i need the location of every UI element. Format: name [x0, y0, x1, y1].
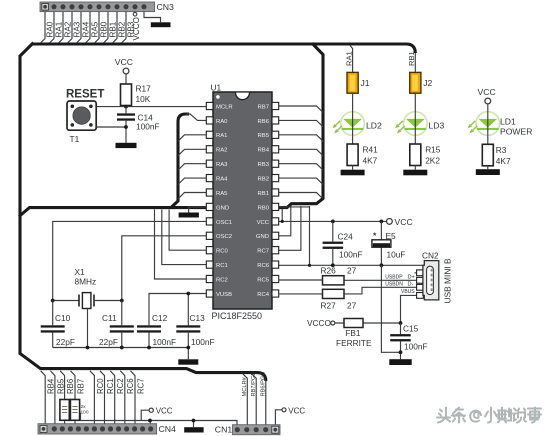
svg-text:C13: C13 [190, 313, 206, 323]
svg-text:R17: R17 [136, 84, 152, 94]
wire R17 bottom to MCLR node [125, 106, 127, 107]
wire VBUS from CN2 down to FB1 node [401, 295, 424, 323]
wire RB0 to bus [279, 206, 311, 208]
ground (bottom) [184, 427, 203, 432]
wire button lower terminal to C14 bottom node [96, 126, 126, 128]
svg-text:VCC: VCC [395, 217, 413, 227]
wire CN3 pin RA2 stub [59, 12, 63, 43]
LED LD3 [404, 112, 428, 136]
capacitor C15 100nF [400, 323, 402, 352]
svg-text:CN3: CN3 [157, 2, 175, 12]
svg-text:RC4: RC4 [257, 292, 270, 298]
svg-text:MCLR: MCLR [216, 104, 233, 110]
capacitor C13 100nF [187, 333, 189, 360]
svg-text:RC7: RC7 [136, 378, 145, 394]
svg-text:VUSB: VUSB [216, 292, 232, 298]
svg-text:RC1: RC1 [106, 378, 115, 394]
svg-text:RB4: RB4 [47, 378, 56, 394]
wire OSC2 to crystal right node [122, 236, 207, 301]
svg-text:C12: C12 [152, 313, 168, 323]
capacitor C11 22pF [121, 301, 123, 348]
svg-text:RA3: RA3 [73, 21, 82, 37]
wire CN3 pin RB0 stub [95, 12, 99, 43]
svg-text:RA2: RA2 [216, 148, 227, 154]
wire CN3 pin RB3 stub [122, 12, 126, 43]
node C14/button junction [124, 125, 128, 129]
svg-text:RB2: RB2 [118, 21, 127, 37]
svg-text:D+: D+ [408, 275, 415, 281]
svg-text:RB2: RB2 [258, 177, 269, 183]
svg-text:RA0: RA0 [46, 21, 55, 37]
svg-text:RESET: RESET [66, 89, 104, 101]
inductor FB1 FERRITE [335, 322, 401, 324]
capacitor C14 100nF [125, 107, 127, 114]
connector CN4 pin header (bottom) [38, 424, 157, 434]
resistor R17 10K [121, 84, 132, 106]
svg-text:OSC1: OSC1 [216, 220, 232, 226]
bus branch to RA pins [171, 114, 190, 208]
wire RC4 through R27 to USB D- [279, 287, 424, 294]
svg-text:RA5: RA5 [216, 191, 228, 197]
svg-text:RA4: RA4 [82, 21, 91, 37]
capacitor E5 10uF electrolytic [380, 221, 382, 265]
svg-text:T1: T1 [70, 134, 80, 144]
svg-text:USBDN: USBDN [385, 282, 403, 288]
wire VUSB to C12/C13 tops [149, 294, 207, 326]
resistor 2x100 on RB7 [71, 371, 76, 425]
svg-text:8MHz: 8MHz [75, 276, 97, 286]
ground (CN3) [151, 22, 171, 27]
resistor R3 4K7 [482, 144, 493, 166]
watermark [437, 408, 541, 423]
svg-text:VCC: VCC [257, 220, 270, 226]
IC U1 PIC18F2550 [213, 92, 272, 309]
LED LD1 POWER [476, 112, 500, 136]
svg-text:27: 27 [347, 300, 357, 310]
jumper J1 [347, 72, 358, 93]
wire bus to J1 [350, 45, 353, 72]
svg-text:USB MINI B: USB MINI B [443, 258, 453, 304]
svg-text:10uF: 10uF [387, 250, 406, 260]
svg-text:RB0: RB0 [258, 205, 270, 211]
wire RC1 up to bus [162, 210, 207, 265]
power OVCC terminal [387, 219, 393, 225]
svg-text:RC6: RC6 [257, 263, 270, 269]
svg-text:VBUS: VBUS [401, 289, 415, 295]
wires bus to CN4 (RB4-RB7) [41, 371, 46, 425]
wire CN3 pin 12 to ground [144, 12, 161, 23]
wire CN3 pin RA0 stub [41, 12, 45, 43]
wire reset node to MCLR pin [96, 106, 206, 108]
svg-text:FB1: FB1 [345, 328, 361, 338]
svg-text:LD3: LD3 [429, 121, 445, 131]
resistor R26 27 [323, 276, 345, 285]
wire GND pin up to bus [279, 206, 291, 236]
wire CN3 pin RA5 stub [86, 12, 90, 43]
svg-text:RC5: RC5 [257, 277, 270, 283]
wire drop to CN4 last pin [149, 421, 151, 425]
svg-text:RA1: RA1 [216, 133, 227, 139]
svg-text:FERRITE: FERRITE [336, 338, 372, 348]
svg-text:RB5: RB5 [56, 378, 65, 394]
svg-text:RA1: RA1 [55, 21, 64, 37]
wires bus to CN1 (programming) [243, 374, 248, 425]
svg-text:10K: 10K [136, 94, 151, 104]
svg-text:C24: C24 [338, 232, 354, 242]
svg-text:100nF: 100nF [191, 337, 215, 347]
svg-text:R27: R27 [321, 300, 337, 310]
svg-text:VCC: VCC [115, 57, 133, 67]
svg-text:RB1: RB1 [258, 191, 269, 197]
svg-text:22pF: 22pF [99, 337, 118, 347]
svg-text:RA3: RA3 [216, 162, 228, 168]
svg-text:RC2: RC2 [116, 378, 125, 394]
svg-text:VCCO: VCCO [307, 318, 332, 328]
svg-text:PIC18F2550: PIC18F2550 [212, 311, 263, 321]
svg-text:RB7: RB7 [76, 379, 85, 394]
svg-text:VCC: VCC [156, 407, 173, 416]
node rail/C24 and rail/E5 junctions [331, 263, 335, 267]
svg-text:E5: E5 [386, 231, 397, 241]
ground (C14) [116, 143, 137, 148]
IC pin stubs and labels [206, 102, 213, 109]
svg-text:C15: C15 [403, 323, 419, 333]
wire VCC distribution line above CN4/CN1 [81, 413, 238, 425]
svg-text:C10: C10 [55, 313, 71, 323]
svg-text:J1: J1 [361, 78, 370, 88]
svg-text:LD2: LD2 [366, 121, 382, 131]
svg-text:100nF: 100nF [404, 341, 428, 351]
resistor 2x100 on RB6 [60, 371, 65, 425]
wire CN3 pin RB1 stub [104, 12, 108, 43]
svg-text:4K7: 4K7 [496, 156, 511, 166]
bus left edge and bottom edge with curl to CN1 [20, 43, 266, 381]
wire RA0 to bus (thin tail) [186, 114, 207, 120]
svg-text:2K2: 2K2 [425, 156, 440, 166]
LED LD2 [341, 112, 365, 136]
node VCC/E5 junction [380, 220, 384, 224]
svg-text:RB3: RB3 [258, 162, 270, 168]
svg-text:RB6/PGC: RB6/PGC [261, 372, 267, 397]
capacitor C10 22pF [52, 301, 54, 348]
svg-text:LD1: LD1 [500, 117, 516, 127]
ground (IC GND pin) [189, 207, 207, 213]
capacitor C24 100nF [332, 221, 334, 265]
svg-text:GND: GND [216, 205, 229, 211]
ground (C15) [389, 359, 411, 365]
svg-text:MCLR#: MCLR# [242, 376, 248, 396]
resistor R27 27 [323, 289, 345, 298]
svg-text:RC7: RC7 [257, 249, 269, 255]
node oscillator rail junctions [86, 346, 90, 350]
svg-text:RB7/PGD: RB7/PGD [251, 372, 257, 397]
wire RC0 up to bus [169, 210, 206, 251]
wires bus to CN4 (RC0-RC7) [90, 371, 95, 425]
wire CN3 pin RA3 stub [68, 12, 72, 43]
wire RC5 through R26 to USB D+ [279, 279, 424, 281]
ground (R15) [403, 170, 427, 176]
wire CN2 unused pin stub [415, 272, 424, 274]
svg-text:D-: D- [408, 282, 414, 288]
svg-text:R15: R15 [425, 145, 441, 155]
svg-text:RC0: RC0 [96, 378, 105, 394]
wire RC2 up to bus [155, 210, 207, 280]
svg-text:RB1: RB1 [109, 21, 118, 37]
wire OSC1 to crystal left node [53, 221, 207, 300]
svg-text:100nF: 100nF [339, 250, 363, 260]
svg-text:RC6: RC6 [126, 378, 135, 394]
power oVCC terminal (CN1) [275, 410, 282, 425]
wire RC7 up to bus [279, 206, 301, 250]
wire CN3 pin RA4 stub [77, 12, 81, 43]
wires RA1-RA5 to bus [178, 135, 207, 141]
svg-text:RB6: RB6 [66, 379, 75, 394]
wire RC6 / ground rail to CN2 [279, 264, 424, 266]
svg-text:RB0: RB0 [100, 21, 109, 37]
wire bus curl to J2 [414, 53, 416, 72]
wire oscillator ground rail [53, 347, 189, 349]
svg-text:VCCO: VCCO [132, 17, 141, 40]
svg-text:VCC: VCC [288, 406, 305, 415]
resistor R15 2K2 [410, 144, 421, 166]
ground (R3) [476, 169, 500, 175]
node MCLR junction [124, 105, 128, 109]
svg-text:OSC2: OSC2 [216, 234, 232, 240]
wire drop to bottom ground [193, 421, 195, 428]
svg-text:RA4: RA4 [216, 177, 228, 183]
svg-text:27: 27 [347, 266, 357, 276]
wires RB7-RB2 to right bus [279, 106, 324, 112]
ground (R41) [341, 170, 365, 176]
svg-text:J2: J2 [423, 78, 432, 88]
svg-text:U1: U1 [211, 83, 222, 93]
svg-text:RC2: RC2 [216, 277, 228, 283]
node VCC/C24 junction [331, 220, 335, 224]
svg-text:RC1: RC1 [216, 263, 228, 269]
node FB1/C15/VBUS junction [399, 321, 403, 325]
svg-text:VCC: VCC [478, 87, 496, 97]
svg-text:RC0: RC0 [216, 249, 229, 255]
svg-text:100: 100 [81, 409, 89, 415]
svg-text:RB7: RB7 [258, 104, 269, 110]
svg-text:GND: GND [256, 234, 269, 240]
svg-text:2x: 2x [81, 404, 87, 410]
jumper J2 [410, 72, 421, 93]
svg-text:100nF: 100nF [136, 122, 160, 132]
capacitor C12 100nF [148, 333, 150, 348]
wire VCC pin to OVCC terminal [279, 220, 387, 222]
bus right branch: from top edge down right side of IC and left under IC [19, 43, 323, 216]
svg-text:4K7: 4K7 [363, 156, 378, 166]
power oVCC terminal (CN4) [141, 410, 149, 420]
wire RB1 to bus corner [279, 193, 323, 199]
svg-text:R3: R3 [496, 145, 507, 155]
bus top edge with curl down to J2 wire [32, 44, 415, 53]
svg-text:R41: R41 [363, 145, 379, 155]
wire CN3 pin RB2 stub [113, 12, 117, 43]
VCC terminal on CN3 pin 11 [134, 11, 136, 14]
svg-text:POWER: POWER [500, 127, 532, 137]
wire C14 bottom to ground [125, 121, 127, 143]
svg-text:R26: R26 [321, 266, 337, 276]
svg-text:RB5: RB5 [258, 133, 270, 139]
ground (oscillator rail) [178, 359, 198, 364]
svg-text:RA0: RA0 [216, 119, 228, 125]
svg-text:RA5: RA5 [91, 21, 100, 37]
svg-text:RB6: RB6 [258, 119, 270, 125]
node crystal left / node crystal right [51, 299, 55, 303]
svg-text:CN1: CN1 [215, 425, 233, 435]
svg-text:CN2: CN2 [422, 251, 439, 261]
connector CN3 pin header (top) [40, 2, 155, 12]
resistor R41 4K7 [347, 144, 358, 166]
wire CN3 pin RA1 stub [50, 12, 54, 43]
wire crystal case to ground rail [87, 309, 89, 348]
svg-text:100nF: 100nF [153, 337, 177, 347]
svg-text:RB4: RB4 [258, 148, 270, 154]
svg-text:C11: C11 [102, 313, 117, 323]
svg-text:CN4: CN4 [159, 424, 177, 434]
svg-text:USBDP: USBDP [385, 275, 403, 281]
svg-text:22pF: 22pF [56, 337, 75, 347]
wire GND drop from rail to C15 ground [381, 265, 400, 359]
svg-text:RA2: RA2 [64, 21, 73, 37]
